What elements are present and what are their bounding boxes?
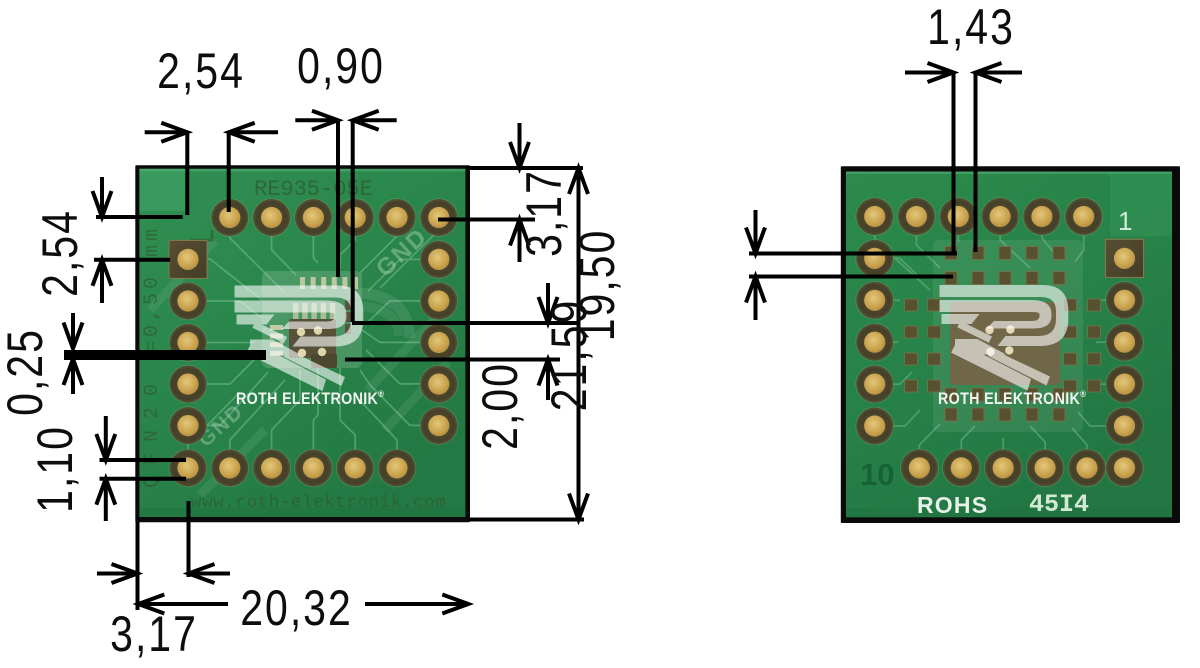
svg-text:3,17: 3,17 <box>516 169 572 257</box>
QFN20 land pattern, left board <box>262 271 362 368</box>
svg-text:0,90: 0,90 <box>297 38 385 94</box>
svg-text:21,59: 21,59 <box>541 299 597 411</box>
left board: RE935-05E front side <box>135 165 470 522</box>
QFN20 land pattern, right board <box>933 240 1083 432</box>
svg-text:2,00: 2,00 <box>472 362 528 450</box>
svg-text:=0,50 mm: =0,50 mm <box>141 225 164 353</box>
svg-text:QFN20: QFN20 <box>141 373 164 488</box>
svg-text:10: 10 <box>860 457 894 492</box>
dimension 2,54 horizontal, top-left <box>185 132 189 215</box>
right board through-hole pads <box>855 197 894 236</box>
dimension 3,17 horizontal, bottom <box>136 522 140 610</box>
svg-text:0,25: 0,25 <box>0 328 53 416</box>
left board copper traces <box>188 218 439 468</box>
right board outline and substrate <box>841 166 1180 523</box>
svg-text:2,54: 2,54 <box>157 43 245 99</box>
svg-text:1,10: 1,10 <box>27 425 83 513</box>
svg-text:2,54: 2,54 <box>32 209 88 297</box>
right board: RE935-05E back side <box>841 166 1180 523</box>
svg-text:3,17: 3,17 <box>110 606 198 662</box>
svg-text:20,32: 20,32 <box>240 580 352 636</box>
left board outline and substrate <box>135 165 470 522</box>
dimension 0,90 horizontal, top <box>336 120 340 277</box>
svg-text:ROTH ELEKTRONIK®: ROTH ELEKTRONIK® <box>938 388 1087 408</box>
svg-text:45I4: 45I4 <box>1029 490 1089 519</box>
dimension 2,54 vertical, left <box>96 215 183 219</box>
svg-text:1,43: 1,43 <box>927 0 1015 55</box>
dimension 1,10 vertical, left <box>100 458 187 462</box>
dimension 0,25 vertical, left <box>64 350 266 360</box>
Roth Elektronik logo, left board <box>235 286 364 392</box>
dimension 20,32 horizontal, bottom <box>140 602 228 606</box>
Roth Elektronik logo, right board <box>940 285 1069 391</box>
svg-text:ROHS: ROHS <box>917 492 988 518</box>
dimensions 3,17 / 2,00 / 19,50 / 21,59 on right side <box>466 166 583 170</box>
svg-text:1: 1 <box>1118 206 1132 236</box>
svg-text:ROTH ELEKTRONIK®: ROTH ELEKTRONIK® <box>236 388 385 408</box>
left board through-hole pads <box>211 198 250 237</box>
svg-text:www.roth-elektronik.com: www.roth-elektronik.com <box>191 493 446 513</box>
